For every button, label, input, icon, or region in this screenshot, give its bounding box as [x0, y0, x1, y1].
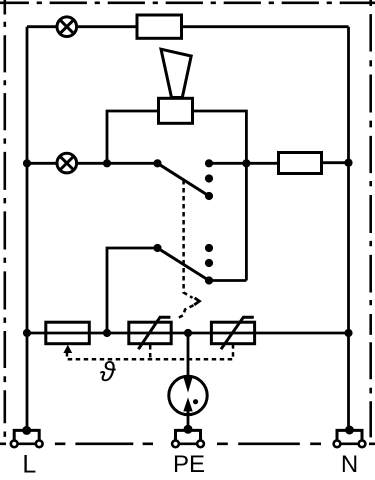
- thermal dashed link: [67, 345, 233, 359]
- indicator lamp top: [57, 17, 77, 37]
- node junction x246: [242, 159, 250, 167]
- wire top horizontal: [27, 25, 349, 28]
- node pivot 1: [153, 159, 161, 167]
- svg-text:N: N: [341, 451, 358, 478]
- node switch2 loop junction: [103, 329, 111, 337]
- switch actuator lever: [161, 49, 191, 97]
- svg-text:L: L: [22, 451, 36, 479]
- wire L bus left vertical: [26, 27, 29, 431]
- wire contact2 to x246: [209, 279, 246, 282]
- node pivot 2: [153, 244, 161, 252]
- wire bottom bus: [27, 332, 349, 335]
- changeover contact 1 blade: [158, 163, 210, 196]
- wire lever left: [107, 111, 159, 163]
- terminal L: [11, 426, 43, 447]
- wire contact1 to resistor2: [209, 162, 279, 165]
- node contact 2a: [205, 244, 213, 252]
- node N bus junction 2: [344, 329, 352, 337]
- switch actuator box: [159, 98, 193, 123]
- svg-text:ϑ: ϑ: [100, 356, 117, 387]
- indicator lamp middle: [57, 153, 77, 173]
- enclosure border left: [4, 0, 7, 437]
- enclosure border right: [369, 0, 372, 437]
- node contact 2c: [205, 276, 213, 284]
- changeover contact 2 blade: [158, 248, 210, 281]
- coupling dashed tail: [179, 305, 194, 318]
- varistor 2: [211, 317, 254, 349]
- thermal dashed stub varistor1: [149, 345, 152, 359]
- wire PE column lower: [187, 411, 190, 429]
- gas discharge tube: [169, 376, 207, 415]
- mechanical coupling dashed line: [184, 180, 193, 298]
- node N bus junction: [344, 159, 352, 167]
- terminal N: [334, 426, 366, 448]
- node contact 1b: [205, 174, 213, 182]
- wire switch2 pivot loop: [107, 248, 158, 333]
- thermal arrow at disconnector: [63, 345, 72, 353]
- wire L2 horizontal: [27, 162, 158, 165]
- wire PE column upper: [187, 333, 190, 377]
- node contact 1c: [205, 192, 213, 200]
- varistor 1: [129, 317, 171, 349]
- wire lever right: [193, 111, 247, 281]
- wire N bus right vertical: [347, 27, 350, 430]
- node contact 1a: [205, 159, 213, 167]
- node L bus junction 2: [23, 329, 31, 337]
- node contact 2b: [205, 259, 213, 267]
- terminal PE: [172, 425, 204, 447]
- enclosure border top: [0, 1, 375, 4]
- coupling arrowhead: [194, 298, 199, 305]
- node PE junction: [184, 329, 192, 337]
- resistor top: [137, 15, 182, 38]
- disconnector resistor: [46, 322, 90, 344]
- node L bus junction 1: [23, 159, 31, 167]
- wire resistor2 to N bus: [322, 161, 349, 164]
- resistor right: [279, 153, 322, 174]
- node lever-left junction: [103, 159, 111, 167]
- svg-text:PE: PE: [173, 451, 205, 478]
- enclosure border bottom: [0, 442, 375, 445]
